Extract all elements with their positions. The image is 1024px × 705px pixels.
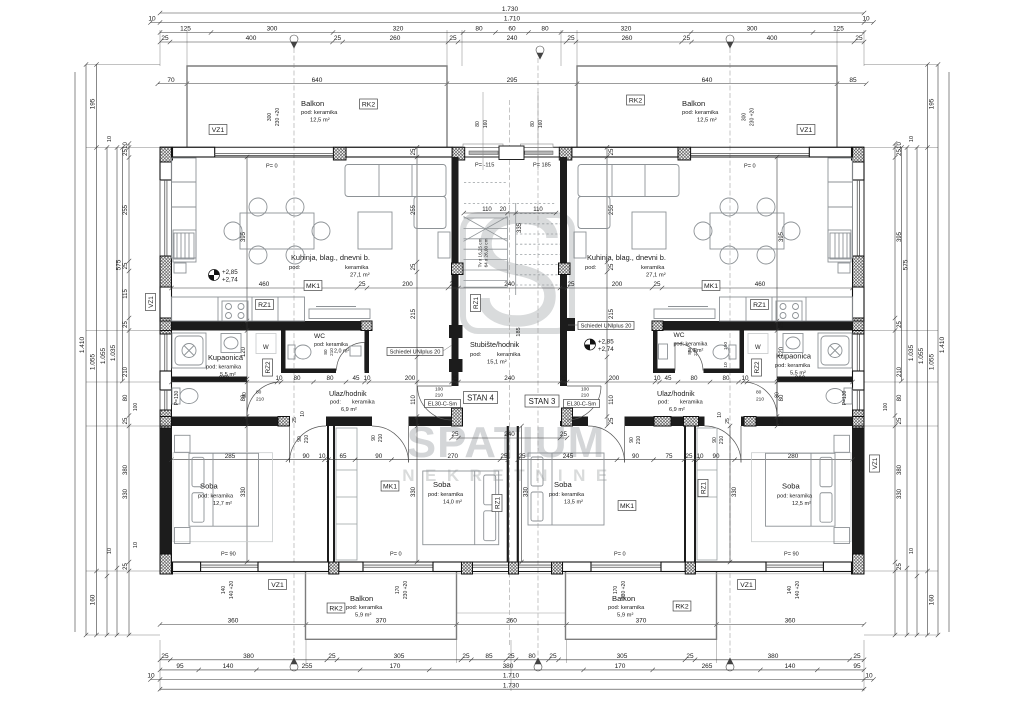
- svg-text:RZ2: RZ2: [265, 361, 272, 374]
- svg-text:300: 300: [742, 113, 748, 122]
- svg-text:P= 90: P= 90: [221, 552, 236, 558]
- dim col left outer: [74, 72, 76, 632]
- svg-text:10: 10: [723, 362, 729, 368]
- bottom wall piers: [160, 562, 173, 574]
- svg-text:Stubište/hodnik: Stubište/hodnik: [470, 340, 520, 349]
- svg-text:210: 210: [329, 348, 334, 356]
- dim row top 3: [158, 26, 866, 35]
- svg-text:VZ1: VZ1: [212, 127, 225, 134]
- vanity left: [221, 334, 241, 353]
- svg-text:110: 110: [482, 207, 492, 213]
- svg-text:90: 90: [712, 453, 720, 460]
- svg-text:RK2: RK2: [629, 97, 642, 104]
- svg-text:85: 85: [849, 77, 857, 84]
- dim row balkon top: [156, 77, 869, 86]
- svg-text:pod: keramika: pod: keramika: [775, 363, 811, 369]
- svg-text:MK1: MK1: [306, 283, 320, 290]
- svg-text:90: 90: [629, 437, 635, 443]
- svg-text:RZ1: RZ1: [258, 302, 271, 309]
- svg-text:STAN 3: STAN 3: [529, 397, 556, 406]
- sink unit left: [174, 233, 194, 273]
- svg-text:25: 25: [609, 417, 615, 424]
- svg-text:Kuhinja, blag., dnevni b.: Kuhinja, blag., dnevni b.: [291, 253, 370, 262]
- svg-text:RZ2: RZ2: [754, 361, 761, 374]
- svg-text:Soba: Soba: [433, 480, 452, 489]
- balkon bottom-right: [566, 571, 717, 639]
- dining table left: [224, 198, 330, 264]
- svg-text:P= 0: P= 0: [614, 552, 626, 558]
- WC door left: [337, 343, 365, 371]
- svg-text:45: 45: [352, 375, 360, 382]
- svg-text:255: 255: [123, 204, 129, 215]
- svg-text:80: 80: [897, 394, 903, 401]
- wall B left: [172, 417, 290, 427]
- svg-text:25: 25: [897, 563, 903, 570]
- svg-text:pod: keramika: pod: keramika: [608, 605, 645, 611]
- svg-text:pod: keramika: pod: keramika: [549, 492, 585, 498]
- svg-text:P= 0: P= 0: [266, 164, 278, 170]
- svg-text:Soba: Soba: [554, 480, 573, 489]
- svg-text:5,5 m²: 5,5 m²: [220, 372, 236, 378]
- svg-text:pod: keramika: pod: keramika: [428, 492, 464, 498]
- top wall piers: [160, 147, 173, 160]
- svg-text:25: 25: [411, 417, 417, 424]
- svg-text:Balkon: Balkon: [682, 99, 705, 108]
- svg-text:10: 10: [862, 16, 870, 23]
- svg-text:80: 80: [722, 375, 730, 382]
- svg-text:80: 80: [326, 375, 334, 382]
- svg-text:195: 195: [929, 98, 936, 109]
- svg-text:100: 100: [435, 387, 443, 393]
- svg-text:pod: keramika: pod: keramika: [674, 342, 708, 348]
- svg-text:210: 210: [719, 436, 725, 445]
- left exterior wall: [160, 147, 172, 574]
- svg-text:25: 25: [609, 263, 615, 270]
- svg-text:230 +20: 230 +20: [403, 581, 409, 599]
- svg-text:pod: keramika: pod: keramika: [198, 494, 234, 500]
- svg-text:P=130: P=130: [842, 390, 848, 405]
- svg-text:10: 10: [123, 142, 129, 149]
- svg-text:25: 25: [462, 653, 470, 660]
- coffee table right: [632, 212, 666, 249]
- svg-text:75: 75: [665, 453, 673, 460]
- svg-text:25: 25: [451, 431, 459, 438]
- interior dim row y459.7 right: [516, 453, 855, 462]
- svg-text:90: 90: [712, 437, 718, 443]
- svg-text:Ulaz/hodnik: Ulaz/hodnik: [329, 389, 367, 398]
- kitchen counter right: [720, 297, 853, 321]
- right exterior wall: [853, 147, 865, 574]
- svg-text:70: 70: [167, 77, 175, 84]
- svg-text:10: 10: [107, 136, 113, 142]
- svg-text:80: 80: [541, 26, 549, 33]
- svg-text:210: 210: [581, 393, 589, 399]
- dim row bottom balconies: [158, 618, 866, 627]
- svg-text:45: 45: [664, 375, 672, 382]
- svg-text:W: W: [755, 345, 761, 351]
- svg-text:25: 25: [567, 35, 575, 42]
- dim row bottom D (1.730): [158, 682, 866, 691]
- bed soba4: [766, 453, 836, 526]
- svg-text:10: 10: [133, 542, 139, 548]
- svg-text:90: 90: [371, 435, 377, 441]
- watermark logo box: [463, 215, 572, 331]
- svg-text:80: 80: [687, 349, 692, 355]
- svg-text:270: 270: [447, 453, 458, 460]
- closet strip left: [336, 428, 357, 560]
- chimney blocks left: [449, 325, 463, 338]
- svg-text:460: 460: [259, 281, 270, 288]
- svg-text:Tv x 16,25 cm: Tv x 16,25 cm: [478, 238, 483, 267]
- svg-text:10: 10: [741, 375, 749, 382]
- svg-text:1.035: 1.035: [908, 344, 915, 361]
- svg-text:EL30-C-Sm: EL30-C-Sm: [428, 402, 458, 408]
- svg-text:305: 305: [617, 653, 628, 660]
- svg-text:10: 10: [318, 453, 326, 460]
- sofa right: [578, 165, 679, 229]
- svg-text:13,5 m²: 13,5 m²: [564, 500, 583, 506]
- svg-text:80: 80: [123, 394, 129, 401]
- svg-text:25: 25: [358, 281, 366, 288]
- svg-text:VZ1: VZ1: [148, 296, 155, 308]
- svg-text:+2,85: +2,85: [598, 339, 614, 346]
- svg-text:10: 10: [653, 375, 661, 382]
- svg-text:25: 25: [653, 281, 661, 288]
- svg-text:VZ1: VZ1: [740, 582, 753, 589]
- interior dim row y438: [449, 431, 569, 440]
- stair dashed treads upper flight: [464, 183, 560, 286]
- svg-text:1.055: 1.055: [918, 347, 925, 364]
- svg-text:Soba: Soba: [782, 482, 801, 491]
- svg-text:95: 95: [853, 663, 861, 670]
- svg-text:400: 400: [246, 35, 257, 42]
- svg-text:VZ1: VZ1: [271, 582, 284, 589]
- svg-text:WC: WC: [674, 332, 685, 339]
- svg-text:+2,74: +2,74: [598, 346, 614, 353]
- svg-text:1.035: 1.035: [110, 344, 117, 361]
- svg-text:10: 10: [147, 673, 155, 680]
- svg-text:VZ1: VZ1: [872, 457, 879, 469]
- svg-text:25: 25: [241, 417, 247, 424]
- svg-text:25: 25: [292, 417, 298, 423]
- svg-text:25: 25: [123, 321, 129, 328]
- svg-text:80: 80: [242, 392, 248, 398]
- bedroom partition right unit: [685, 426, 695, 562]
- svg-text:65: 65: [339, 453, 347, 460]
- interior vchain x247: [241, 155, 249, 564]
- stair core wall left: [452, 157, 459, 386]
- unit entry door left (from stair): [418, 386, 452, 420]
- svg-text:1.710: 1.710: [503, 673, 520, 680]
- svg-text:330: 330: [732, 486, 738, 497]
- svg-text:25: 25: [560, 375, 568, 382]
- svg-text:360: 360: [785, 618, 796, 625]
- svg-text:300: 300: [747, 26, 758, 33]
- svg-text:400: 400: [767, 35, 778, 42]
- svg-text:keramika: keramika: [497, 352, 521, 358]
- svg-text:25: 25: [897, 321, 903, 328]
- svg-text:80: 80: [775, 392, 781, 398]
- svg-text:300: 300: [267, 26, 278, 33]
- washer right: [748, 334, 768, 354]
- svg-text:300: 300: [267, 113, 273, 122]
- svg-text:25: 25: [779, 321, 785, 328]
- door soba2: [372, 426, 409, 463]
- dim col right outer: [948, 72, 950, 632]
- svg-text:25: 25: [686, 653, 694, 660]
- wc sink left: [350, 346, 361, 356]
- svg-text:25: 25: [123, 563, 129, 570]
- svg-text:keramika: keramika: [641, 265, 665, 271]
- svg-text:P= -115: P= -115: [475, 163, 494, 169]
- svg-text:25: 25: [334, 35, 342, 42]
- svg-text:260: 260: [622, 35, 633, 42]
- svg-text:25: 25: [123, 149, 129, 156]
- tv bench left: [309, 307, 370, 319]
- svg-text:5,9 m²: 5,9 m²: [617, 613, 633, 619]
- svg-text:12,5 m²: 12,5 m²: [310, 118, 330, 124]
- svg-text:12,7 m²: 12,7 m²: [213, 501, 232, 507]
- VZ1 wall tags: [146, 293, 156, 310]
- svg-text:140: 140: [221, 586, 227, 595]
- svg-text:395: 395: [897, 231, 903, 242]
- svg-text:MK1: MK1: [620, 503, 634, 510]
- balkon top-left: [187, 66, 447, 148]
- svg-text:MK1: MK1: [704, 283, 718, 290]
- svg-text:330: 330: [524, 486, 530, 497]
- svg-text:20: 20: [500, 207, 507, 213]
- svg-text:95: 95: [176, 663, 184, 670]
- svg-text:330: 330: [241, 486, 247, 497]
- svg-text:RK2: RK2: [675, 603, 688, 610]
- svg-text:85: 85: [485, 653, 493, 660]
- svg-text:10: 10: [275, 375, 283, 382]
- interior vchain x607: [605, 145, 615, 428]
- bed soba1: [189, 453, 259, 526]
- svg-text:Kupaonica: Kupaonica: [208, 353, 244, 362]
- svg-text:460: 460: [755, 281, 766, 288]
- wall A left (kitchen/bath): [172, 321, 362, 331]
- svg-text:keramika: keramika: [680, 400, 704, 406]
- svg-text:100: 100: [133, 403, 139, 412]
- svg-text:370: 370: [376, 618, 387, 625]
- chimney blocks right: [562, 318, 576, 331]
- stove right: [776, 301, 802, 321]
- bath door right: [743, 382, 777, 416]
- dining table right: [694, 198, 800, 264]
- nightstands soba4: [834, 435, 850, 543]
- svg-text:WC: WC: [314, 333, 325, 340]
- elevation symbols: [209, 270, 220, 281]
- svg-text:25: 25: [161, 35, 169, 42]
- side table left: [438, 232, 450, 258]
- balkon top-right: [577, 66, 837, 148]
- svg-text:110: 110: [533, 207, 543, 213]
- wc toilet left: [288, 345, 311, 359]
- svg-text:170: 170: [615, 663, 626, 670]
- svg-text:260: 260: [506, 618, 517, 625]
- dim row bottom C (1.710): [147, 673, 875, 682]
- wall A right: [663, 321, 853, 331]
- svg-text:295: 295: [507, 77, 518, 84]
- svg-text:210: 210: [123, 366, 129, 377]
- svg-text:240: 240: [507, 35, 518, 42]
- door soba1: [290, 426, 327, 463]
- svg-text:pod:: pod:: [330, 400, 341, 406]
- svg-text:240: 240: [504, 431, 515, 438]
- bedroom partition left unit: [328, 426, 334, 562]
- svg-text:keramika: keramika: [352, 400, 376, 406]
- svg-text:260: 260: [390, 35, 401, 42]
- shower right: [818, 333, 852, 368]
- svg-text:80: 80: [475, 26, 483, 33]
- svg-text:12,5 m²: 12,5 m²: [792, 501, 811, 507]
- svg-text:STAN 4: STAN 4: [467, 393, 494, 402]
- svg-text:100: 100: [581, 387, 589, 393]
- svg-text:Soba: Soba: [200, 482, 219, 491]
- svg-text:pod: keramika: pod: keramika: [314, 342, 348, 348]
- svg-text:+2,74: +2,74: [222, 277, 238, 284]
- svg-text:RK2: RK2: [362, 101, 375, 108]
- svg-text:360: 360: [228, 618, 239, 625]
- svg-text:25: 25: [683, 35, 691, 42]
- schiedel labels: [387, 348, 443, 356]
- svg-text:10: 10: [909, 548, 915, 554]
- svg-text:27,1 m²: 27,1 m²: [646, 273, 666, 279]
- svg-text:195: 195: [90, 98, 97, 109]
- svg-text:10: 10: [717, 412, 723, 418]
- svg-text:1.710: 1.710: [504, 16, 521, 23]
- center party walls: [508, 426, 518, 562]
- svg-text:115: 115: [123, 289, 129, 299]
- unit entry door right: [567, 386, 601, 420]
- bed soba2: [423, 471, 499, 545]
- svg-text:240: 240: [504, 375, 515, 382]
- nightstands soba1: [175, 435, 191, 543]
- svg-text:Schiedel UNIplus 20: Schiedel UNIplus 20: [390, 350, 441, 356]
- svg-text:P= 185: P= 185: [533, 163, 551, 169]
- svg-text:pod:: pod:: [585, 265, 597, 271]
- svg-text:keramika: keramika: [345, 265, 369, 271]
- svg-text:10: 10: [363, 375, 371, 382]
- stair treads: [464, 203, 516, 295]
- svg-text:RK2: RK2: [329, 605, 342, 612]
- svg-text:200: 200: [405, 375, 416, 382]
- svg-text:Kupaonica: Kupaonica: [776, 352, 812, 361]
- svg-text:140: 140: [223, 663, 234, 670]
- svg-text:25: 25: [855, 35, 863, 42]
- balkon bottom-left: [306, 571, 457, 639]
- wc toilet right: [713, 345, 736, 359]
- svg-text:10: 10: [300, 411, 306, 417]
- WC box left: [281, 331, 369, 374]
- svg-text:80: 80: [256, 390, 262, 396]
- svg-text:pod: keramika: pod: keramika: [301, 110, 338, 116]
- svg-text:230 +20: 230 +20: [621, 581, 627, 599]
- svg-text:25: 25: [411, 263, 417, 270]
- svg-text:25: 25: [451, 375, 459, 382]
- svg-text:25: 25: [779, 417, 785, 424]
- svg-text:25: 25: [449, 281, 457, 288]
- svg-text:10: 10: [865, 673, 873, 680]
- svg-text:320: 320: [621, 26, 632, 33]
- svg-text:2,0 m²: 2,0 m²: [334, 349, 349, 355]
- interior vchain x417: [411, 145, 419, 564]
- svg-text:25: 25: [560, 431, 568, 438]
- svg-text:80: 80: [293, 375, 301, 382]
- svg-text:575: 575: [903, 259, 910, 270]
- svg-text:215: 215: [411, 308, 417, 319]
- svg-text:6,9 m²: 6,9 m²: [341, 407, 357, 413]
- svg-text:160: 160: [538, 120, 544, 129]
- door soba3: [588, 426, 625, 463]
- svg-text:27,1 m²: 27,1 m²: [350, 273, 370, 279]
- svg-text:215: 215: [609, 308, 615, 319]
- svg-text:+2,85: +2,85: [222, 269, 238, 276]
- svg-text:255: 255: [302, 663, 313, 670]
- soba1 rug outline: [173, 453, 273, 542]
- svg-text:380: 380: [897, 464, 903, 475]
- svg-text:1.055: 1.055: [929, 353, 936, 370]
- svg-text:14,0 m²: 14,0 m²: [443, 500, 462, 506]
- svg-text:25: 25: [567, 281, 575, 288]
- svg-text:320: 320: [393, 26, 404, 33]
- svg-text:Ulaz/hodnik: Ulaz/hodnik: [657, 389, 695, 398]
- svg-text:210: 210: [756, 397, 764, 403]
- svg-text:140 +20: 140 +20: [229, 581, 235, 599]
- svg-text:240: 240: [504, 281, 515, 288]
- svg-text:285: 285: [225, 453, 236, 460]
- svg-text:160: 160: [929, 594, 936, 605]
- svg-text:140 +20: 140 +20: [795, 581, 801, 599]
- svg-text:100: 100: [883, 403, 889, 412]
- interior dim row y382: [169, 375, 854, 384]
- svg-text:140: 140: [785, 663, 796, 670]
- svg-text:210: 210: [256, 397, 264, 403]
- sofa left: [345, 165, 446, 229]
- wc sink small right: [659, 344, 668, 359]
- svg-text:pod:: pod:: [289, 265, 301, 271]
- svg-text:140: 140: [787, 586, 793, 595]
- door soba4: [705, 426, 742, 463]
- svg-text:90: 90: [632, 453, 640, 460]
- svg-text:12,5 m²: 12,5 m²: [697, 118, 717, 124]
- svg-text:1.730: 1.730: [502, 6, 519, 13]
- svg-text:640: 640: [702, 77, 713, 84]
- coffee table left: [358, 212, 392, 249]
- svg-text:90: 90: [302, 453, 310, 460]
- svg-text:210: 210: [435, 393, 443, 399]
- stair core wall right: [560, 157, 567, 386]
- svg-text:pod:: pod:: [658, 400, 669, 406]
- svg-text:80: 80: [690, 375, 698, 382]
- svg-text:10: 10: [148, 16, 156, 23]
- svg-text:1.055: 1.055: [90, 353, 97, 370]
- svg-text:RZ1: RZ1: [473, 297, 480, 310]
- bath door left: [247, 382, 281, 416]
- WC door right: [675, 343, 703, 371]
- svg-text:210: 210: [693, 348, 698, 356]
- svg-text:170: 170: [613, 586, 619, 595]
- svg-text:210: 210: [636, 436, 642, 445]
- svg-text:RZ1: RZ1: [753, 302, 766, 309]
- svg-text:25: 25: [725, 418, 731, 424]
- svg-text:90: 90: [297, 436, 303, 442]
- WC box right: [653, 331, 744, 374]
- svg-text:80: 80: [528, 653, 536, 660]
- boxed labels interior: [256, 300, 274, 310]
- svg-text:265: 265: [702, 663, 713, 670]
